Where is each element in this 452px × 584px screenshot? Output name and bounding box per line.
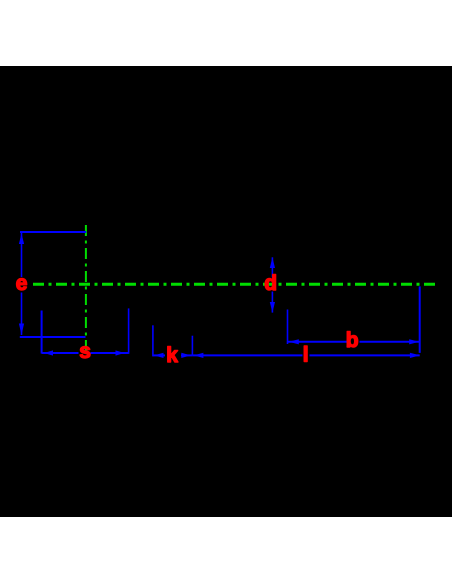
extension line top (e): [20, 231, 86, 233]
svg-text:d: d: [264, 272, 277, 295]
extension line bottom (e): [20, 336, 86, 338]
dimension line s left segment: [42, 352, 79, 354]
dimension line k right segment: [181, 354, 192, 356]
dimension line d upper: [271, 257, 273, 277]
arrow b left: [289, 339, 299, 344]
dimension line l right segment: [310, 354, 420, 356]
extension line s right: [128, 308, 130, 353]
arrow l left: [194, 353, 204, 358]
dimension line l left segment: [192, 354, 302, 356]
dimension line e lower segment: [21, 293, 23, 336]
arrow e down: [19, 324, 24, 336]
dimension line e upper segment: [21, 233, 23, 277]
arrow k right: [181, 353, 191, 358]
arrow k left: [154, 353, 164, 358]
svg-text:l: l: [303, 343, 309, 366]
dimension line k left segment: [153, 354, 165, 356]
arrow d up: [270, 257, 275, 268]
extension line k right: [191, 336, 193, 356]
arrow s right: [116, 350, 125, 355]
arrow l right: [410, 353, 420, 358]
dimension line s right segment: [91, 352, 129, 354]
arrow b right: [409, 339, 419, 344]
svg-text:e: e: [16, 272, 28, 295]
dimension line b right segment: [360, 341, 420, 343]
svg-text:s: s: [79, 340, 91, 363]
vertical centerline (head axis): [85, 225, 87, 351]
extension line l/b right: [419, 286, 421, 353]
dimension line b left segment: [288, 341, 347, 343]
arrow s left: [44, 350, 53, 355]
svg-text:k: k: [166, 344, 178, 367]
black drawing area: [0, 66, 452, 517]
dimension line d lower: [271, 292, 273, 313]
extension line k left: [152, 325, 154, 356]
horizontal centerline: [33, 283, 438, 286]
arrow d down: [270, 302, 275, 313]
extension line s left: [41, 311, 43, 354]
arrow e up: [19, 233, 24, 244]
svg-text:b: b: [346, 329, 359, 352]
extension line b left: [287, 310, 289, 345]
